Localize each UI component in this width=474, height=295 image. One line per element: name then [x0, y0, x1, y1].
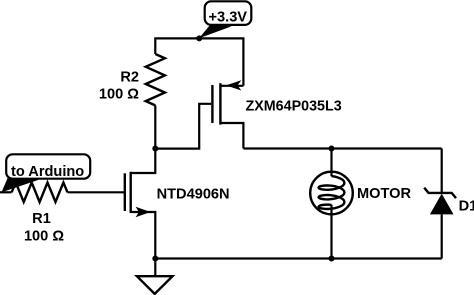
M2 source arrow	[226, 80, 241, 90]
resistor R1	[12, 183, 68, 203]
transistor M2 PMOS channel bar	[219, 83, 221, 124]
node A junction dot	[152, 146, 158, 152]
svg-text:R1: R1	[32, 211, 51, 227]
transistor M2 PMOS ZXM64P035L3 gate bar	[211, 85, 213, 123]
M2 source lead	[220, 85, 243, 87]
svg-text:R2: R2	[120, 70, 139, 86]
wire top rail from R2 top to M2 source	[155, 38, 243, 85]
wire motor top lead	[330, 149, 332, 177]
svg-text:D1: D1	[459, 198, 474, 214]
svg-text:ZXM64P035L3: ZXM64P035L3	[246, 98, 342, 114]
motor M circle	[310, 172, 353, 215]
svg-text:100 Ω: 100 Ω	[24, 228, 64, 244]
wire R1 to M1 gate	[68, 191, 125, 193]
resistor R2	[146, 54, 165, 105]
M1 source arrow	[136, 207, 151, 217]
wire NMOS drain to node A	[131, 149, 156, 174]
M1 source lead	[131, 212, 156, 259]
to Arduino label pointer	[1, 176, 38, 192]
diode D1 zener cathode bar	[424, 188, 456, 198]
svg-text:NTD4906N: NTD4906N	[157, 186, 230, 202]
svg-text:+3.3V: +3.3V	[209, 10, 248, 26]
motor coil	[319, 176, 345, 209]
diode D1 triangle	[430, 194, 454, 215]
+3.3V label pointer	[199, 25, 232, 38]
wire D1 top lead	[441, 149, 443, 194]
transistor M1 NMOS channel bar	[129, 172, 131, 213]
to Arduino label box	[6, 154, 90, 178]
svg-text:100 Ω: 100 Ω	[99, 86, 139, 102]
wire D1 bottom lead	[441, 214, 443, 258]
svg-text:MOTOR: MOTOR	[357, 186, 412, 202]
wire R2 bottom to node A	[154, 105, 156, 148]
transistor M1 NMOS NTD4906N gate bar	[124, 173, 126, 211]
M2 drain lead	[220, 123, 243, 149]
node V+ junction dot	[196, 35, 202, 41]
svg-text:to Arduino: to Arduino	[11, 164, 84, 180]
wire input to R1	[0, 191, 12, 193]
node ground junction dot	[152, 256, 158, 262]
node motor top junction dot	[329, 146, 335, 152]
node motor bottom junction dot	[329, 256, 335, 262]
ground symbol	[137, 276, 173, 294]
wire motor rail	[243, 147, 441, 149]
wire bottom rail	[155, 257, 441, 259]
wire ground stub	[154, 259, 156, 277]
wire node A to M2 gate	[155, 104, 211, 149]
+3.3V label box	[205, 1, 252, 25]
wire motor bottom lead	[330, 205, 332, 259]
